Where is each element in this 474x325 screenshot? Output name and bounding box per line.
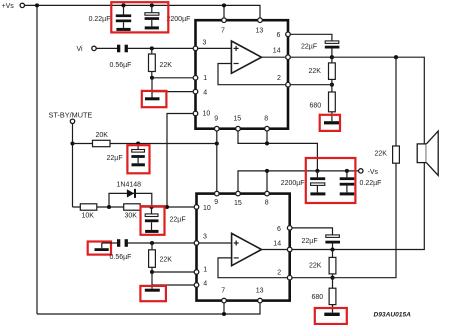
- svg-text:2: 2: [277, 270, 281, 277]
- red highlight box lower input ground: [88, 242, 111, 255]
- pin 9 lower: [214, 191, 219, 206]
- speaker load: [417, 131, 438, 176]
- wire pin10 upper vertical: [167, 114, 193, 208]
- wire pin7 lower to rail: [223, 303, 225, 314]
- ground under 2200uF -Vs: [310, 192, 325, 195]
- pin 1 lower: [194, 267, 207, 275]
- capacitor 0.22uF -Vs: [340, 171, 355, 193]
- junction pin1 node: [150, 76, 154, 80]
- svg-text:0.56µF: 0.56µF: [110, 254, 132, 261]
- resistor 22K input bias: [149, 48, 156, 77]
- red highlight box 680 ground lower: [315, 308, 347, 324]
- red highlight box mute cap: [127, 145, 149, 173]
- pin 13 upper: [256, 18, 264, 35]
- wire pin6 lower to 22uF: [292, 228, 333, 235]
- junction pin2 upper node: [330, 83, 334, 87]
- svg-text:+Vs: +Vs: [2, 3, 15, 10]
- capacitor 22uF stby: [145, 207, 159, 230]
- svg-text:22K: 22K: [160, 256, 173, 263]
- terminal -Vs: [359, 169, 363, 173]
- wire to pin1 lower: [152, 271, 194, 273]
- pin 3 upper: [193, 40, 206, 51]
- svg-text:1N4148: 1N4148: [117, 182, 142, 189]
- wire pin6 to 22uF bootstrap: [290, 34, 332, 41]
- svg-text:7: 7: [221, 287, 225, 294]
- red highlight box supply caps: [111, 2, 168, 32]
- junction pin2 lower node: [330, 276, 334, 280]
- resistor 20K mute: [73, 140, 217, 146]
- red highlight box -Vs caps: [306, 158, 356, 203]
- svg-text:4: 4: [203, 90, 207, 97]
- resistor 680 upper: [329, 85, 336, 122]
- wire stby vertical: [72, 124, 74, 208]
- svg-text:22µF: 22µF: [170, 217, 186, 224]
- svg-text:0.56µF: 0.56µF: [110, 62, 132, 69]
- svg-text:10K: 10K: [82, 213, 95, 220]
- wire 680 lower to ground: [332, 305, 334, 313]
- ground lower network: [145, 289, 160, 292]
- ground under 0.22uF -Vs: [340, 192, 355, 195]
- svg-text:30K: 30K: [125, 213, 138, 220]
- pin 15 upper: [233, 115, 241, 131]
- svg-text:14: 14: [273, 48, 281, 55]
- svg-text:13: 13: [256, 28, 264, 35]
- junction pin1 lower node: [150, 270, 154, 274]
- svg-text:2200µF: 2200µF: [167, 16, 191, 23]
- pin 7 lower: [221, 287, 226, 303]
- pin 14 lower: [273, 241, 292, 252]
- capacitor 0.56uF input: [117, 45, 128, 53]
- pin 6 lower: [277, 226, 292, 234]
- wire pin4 lower to ground node: [152, 284, 194, 286]
- capacitor 2200uF -Vs electrolytic: [310, 171, 325, 193]
- resistor 10K: [73, 204, 195, 210]
- junction bridge feedback tap: [394, 55, 398, 59]
- red highlight box 680 ground upper: [320, 115, 340, 131]
- junction bootstrap node lower: [330, 247, 334, 251]
- pin 2 upper: [277, 75, 290, 87]
- svg-text:2: 2: [277, 75, 281, 82]
- red highlight box ground: [142, 91, 167, 107]
- wire bottom supply rail: [37, 303, 260, 314]
- svg-text:7: 7: [221, 28, 225, 35]
- svg-text:680: 680: [312, 294, 324, 301]
- svg-text:10: 10: [203, 205, 211, 212]
- red highlight box lower ground: [140, 286, 166, 301]
- wire down to ground: [151, 78, 153, 98]
- junction pin7 lower: [222, 312, 226, 316]
- wire Vi to C3: [96, 47, 117, 49]
- svg-text:22µF: 22µF: [107, 155, 123, 162]
- junction pin10 rail: [165, 205, 169, 209]
- ground lower input: [95, 243, 109, 251]
- capacitor 0.22uF supply bypass: [116, 5, 131, 28]
- junction lower pin8: [265, 169, 269, 173]
- ground input network: [145, 97, 160, 100]
- junction C1 tap: [121, 3, 125, 7]
- wire lower output rail: [292, 163, 424, 250]
- svg-text:D93AU015A: D93AU015A: [374, 311, 412, 318]
- pin 2 lower: [277, 270, 292, 280]
- resistor 22K feedback upper: [329, 57, 336, 84]
- svg-text:22µF: 22µF: [301, 44, 317, 51]
- red highlight box stby cap: [141, 206, 165, 235]
- wire pin2 to node: [290, 84, 332, 86]
- svg-text:22K: 22K: [309, 262, 322, 269]
- terminal +Vs: [20, 3, 24, 7]
- pin 14 upper: [273, 48, 291, 60]
- pin 3 lower: [194, 234, 207, 246]
- svg-text:6: 6: [277, 32, 281, 39]
- wire C3 to pin3: [128, 47, 194, 49]
- svg-text:0.22µF: 0.22µF: [360, 180, 382, 187]
- svg-text:3: 3: [203, 234, 207, 241]
- svg-text:0.22µF: 0.22µF: [89, 16, 111, 23]
- svg-text:Vi: Vi: [77, 46, 84, 53]
- wire pin9 to pin9 vertical: [216, 131, 218, 191]
- svg-text:22µF: 22µF: [302, 238, 318, 245]
- wire -Vs rail: [238, 171, 359, 191]
- svg-text:1: 1: [203, 75, 207, 82]
- pin 10 upper: [193, 111, 210, 118]
- wire ground to C4: [102, 242, 117, 244]
- svg-text:2200µF: 2200µF: [281, 180, 305, 187]
- junction bootstrap node: [330, 55, 334, 59]
- resistor 680 lower: [329, 278, 336, 310]
- svg-text:15: 15: [233, 115, 241, 122]
- junction mute cap node: [136, 141, 140, 145]
- capacitor 22uF bootstrap upper: [325, 41, 340, 57]
- pin 1 upper: [193, 75, 207, 82]
- wire lower pin8 stub: [266, 171, 268, 191]
- pin 9 upper: [214, 115, 219, 131]
- wire pin7 to +Vs rail: [223, 5, 225, 18]
- resistor 22K feedback lower: [329, 250, 336, 278]
- resistor 22K lower bias: [149, 243, 156, 272]
- capacitor 22uF bootstrap lower: [325, 235, 340, 250]
- svg-text:8: 8: [264, 115, 268, 122]
- junction stby cap node: [149, 205, 153, 209]
- pin 8 upper: [264, 115, 269, 131]
- junction 2200uF -Vs tap: [315, 169, 319, 173]
- pin 13 lower: [256, 287, 264, 303]
- wire pin2 lower rail to bridge resistor: [292, 57, 396, 278]
- svg-text:13: 13: [256, 287, 264, 294]
- junction left rail: [35, 3, 39, 7]
- wire to pin1: [152, 77, 193, 79]
- pin 6 upper: [277, 32, 291, 39]
- ground under 2200uF: [145, 26, 159, 29]
- op-amp U1 upper TDA7293: [196, 20, 289, 129]
- junction diode left: [107, 205, 111, 209]
- pin 15 lower: [234, 191, 242, 207]
- terminal ST-BY/MUTE: [70, 119, 74, 123]
- svg-text:15: 15: [234, 200, 242, 207]
- capacitor 0.56uF lower input: [117, 239, 128, 247]
- svg-text:1: 1: [203, 267, 207, 274]
- capacitor 2200uF supply electrolytic: [145, 5, 160, 26]
- junction 20K tap: [70, 141, 74, 145]
- wire upper 15-8 jumper to -Vs: [238, 131, 317, 171]
- wire +Vs top rail: [25, 5, 261, 18]
- svg-text:ST-BY/MUTE: ST-BY/MUTE: [49, 110, 93, 119]
- wire upper pin8 stub: [266, 131, 268, 143]
- ground under mute cap: [132, 163, 145, 166]
- ground under 680 lower: [324, 313, 339, 316]
- junction 0.22uF -Vs tap: [345, 169, 349, 173]
- capacitor 22uF mute: [131, 144, 144, 164]
- junction pin9 rail: [215, 141, 219, 145]
- junction input node: [150, 46, 154, 50]
- junction lower input node: [150, 241, 154, 245]
- resistor 30K: [124, 204, 141, 210]
- pin 4 upper: [193, 89, 207, 96]
- wire down to lower ground: [151, 272, 153, 289]
- pin 4 lower: [194, 280, 207, 287]
- op-amp U2 lower TDA7293: [197, 194, 290, 301]
- junction C2 tap: [150, 3, 154, 7]
- svg-text:9: 9: [214, 115, 218, 122]
- diode 1N4148: [109, 189, 152, 207]
- ground under 680 upper: [324, 121, 340, 124]
- ground under stby cap: [145, 230, 158, 233]
- svg-text:6: 6: [277, 226, 281, 233]
- svg-text:680: 680: [310, 102, 322, 109]
- pin 8 lower: [265, 191, 270, 206]
- svg-text:14: 14: [273, 241, 281, 248]
- svg-text:4: 4: [203, 280, 207, 287]
- svg-text:20K: 20K: [96, 132, 109, 139]
- wire pin4 to ground node: [152, 91, 193, 93]
- svg-text:8: 8: [265, 200, 269, 207]
- terminal Vi: [92, 46, 96, 50]
- ground under 0.22uF: [116, 28, 130, 31]
- svg-text:9: 9: [214, 199, 218, 206]
- pin 7 upper: [221, 18, 226, 35]
- svg-text:22K: 22K: [309, 68, 322, 75]
- svg-text:22K: 22K: [375, 151, 388, 158]
- junction upper pin8: [265, 141, 269, 145]
- svg-text:-Vs: -Vs: [368, 169, 379, 176]
- resistor 22K bridge: [393, 146, 400, 163]
- junction pin7 tap: [222, 3, 226, 7]
- wire C4 to pin3 lower: [128, 242, 195, 244]
- svg-text:3: 3: [203, 40, 207, 47]
- svg-text:22K: 22K: [160, 62, 173, 69]
- wire left supply vertical: [36, 5, 38, 314]
- wire upper output rail: [290, 57, 424, 144]
- pin 10 lower: [194, 205, 211, 212]
- svg-text:10: 10: [203, 111, 211, 118]
